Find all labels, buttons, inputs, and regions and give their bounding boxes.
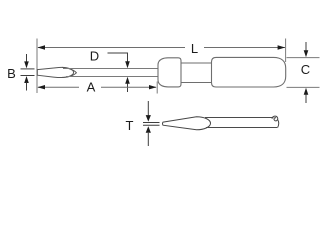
shaft side view top line	[63, 68, 158, 70]
T tick top	[143, 122, 160, 124]
dimension L line	[38, 47, 285, 49]
blade-shaft transition arc (side view)	[62, 67, 74, 77]
T tick bottom	[143, 124, 160, 126]
svg-text:D: D	[90, 48, 99, 63]
arrowhead L right	[278, 45, 286, 49]
C bottom extension line	[287, 86, 320, 88]
shaft top view top line	[205, 117, 274, 119]
D bottom arrow tail	[127, 84, 129, 93]
extension line left (tip)	[36, 39, 38, 94]
leader D	[108, 53, 128, 62]
arrowhead A right	[149, 85, 157, 89]
break squiggle at shaft end	[272, 116, 279, 128]
arrowhead A left	[37, 85, 45, 89]
blade top view	[162, 117, 210, 130]
C top arrow	[305, 42, 307, 51]
C bottom arrow	[304, 88, 309, 95]
shaft side view bottom line	[66, 76, 158, 78]
arrowhead D top (down)	[125, 61, 130, 68]
svg-text:L: L	[191, 41, 198, 56]
B top arrow	[26, 54, 28, 62]
svg-text:B: B	[7, 66, 16, 81]
svg-text:A: A	[87, 80, 96, 95]
C top extension line	[287, 57, 320, 59]
svg-text:T: T	[126, 118, 134, 133]
ferrule	[158, 58, 181, 87]
neck top line	[181, 62, 212, 64]
T bottom arrow	[146, 126, 151, 133]
handle	[212, 57, 286, 87]
neck bottom line	[181, 82, 212, 84]
blade side view	[37, 67, 76, 77]
arrowhead D bottom (up)	[125, 77, 130, 84]
shaft top view bottom line	[206, 127, 277, 129]
extension line right (handle end)	[285, 39, 287, 63]
B tick top	[21, 68, 35, 70]
svg-text:C: C	[301, 62, 310, 77]
B bottom arrow	[24, 76, 29, 83]
arrowhead L left	[37, 45, 45, 49]
extension line A right	[156, 82, 158, 94]
dimension A line	[38, 86, 79, 88]
T top arrow	[147, 101, 149, 116]
B tick bottom	[21, 75, 35, 77]
